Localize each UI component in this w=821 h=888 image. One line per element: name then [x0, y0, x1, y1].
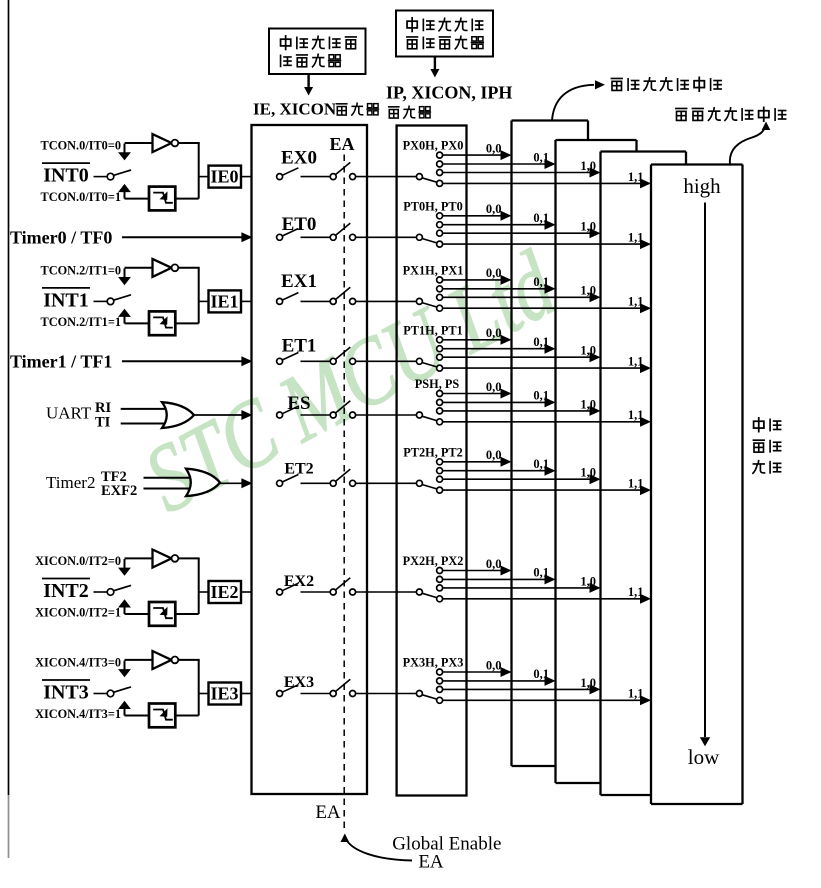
svg-text:low: low [688, 745, 720, 769]
svg-text:1,1: 1,1 [628, 295, 644, 309]
svg-text:0,1: 0,1 [533, 566, 549, 580]
svg-text:1,0: 1,0 [580, 574, 596, 588]
svg-text:1,1: 1,1 [628, 231, 644, 245]
svg-text:PT2H, PT2: PT2H, PT2 [403, 445, 462, 459]
svg-text:PX2H, PX2: PX2H, PX2 [403, 554, 464, 568]
svg-text:1,1: 1,1 [628, 687, 644, 701]
svg-text:0,1: 0,1 [533, 667, 549, 681]
svg-text:EA: EA [418, 852, 444, 873]
svg-text:XICON.0/IT2=1: XICON.0/IT2=1 [35, 606, 121, 620]
svg-text:1,1: 1,1 [628, 585, 644, 599]
svg-text:IE3: IE3 [210, 684, 238, 704]
svg-text:ET1: ET1 [282, 335, 317, 356]
svg-text:TCON.0/IT0=0: TCON.0/IT0=0 [41, 139, 121, 153]
svg-text:Timer2: Timer2 [46, 473, 95, 492]
svg-text:PT1H, PT1: PT1H, PT1 [403, 323, 462, 337]
svg-text:1,1: 1,1 [628, 477, 644, 491]
svg-text:INT0: INT0 [43, 165, 89, 187]
svg-text:0,0: 0,0 [486, 141, 502, 155]
svg-text:1,1: 1,1 [628, 355, 644, 369]
svg-text:IE1: IE1 [210, 291, 238, 311]
svg-text:Timer0 / TF0: Timer0 / TF0 [10, 228, 112, 248]
svg-text:EA: EA [329, 134, 354, 154]
svg-text:EX0: EX0 [281, 148, 317, 169]
svg-text:IE2: IE2 [210, 582, 238, 602]
svg-text:0,0: 0,0 [486, 380, 502, 394]
svg-text:TCON.2/IT1=0: TCON.2/IT1=0 [41, 263, 121, 277]
svg-text:1,0: 1,0 [580, 466, 596, 480]
svg-text:0,1: 0,1 [533, 457, 549, 471]
svg-text:0,1: 0,1 [533, 389, 549, 403]
svg-text:PX3H, PX3: PX3H, PX3 [403, 656, 464, 670]
svg-text:0,0: 0,0 [486, 326, 502, 340]
svg-text:Timer1 / TF1: Timer1 / TF1 [10, 352, 112, 372]
svg-text:TCON.2/IT1=1: TCON.2/IT1=1 [41, 315, 121, 329]
svg-text:0,0: 0,0 [486, 448, 502, 462]
svg-text:0,1: 0,1 [533, 275, 549, 289]
svg-text:UART: UART [46, 404, 92, 423]
svg-text:1,0: 1,0 [580, 344, 596, 358]
svg-text:INT2: INT2 [43, 580, 89, 602]
svg-text:IP, XICON, IPH: IP, XICON, IPH [386, 83, 512, 103]
svg-text:1,1: 1,1 [628, 170, 644, 184]
svg-text:IE0: IE0 [210, 167, 238, 187]
svg-text:1,0: 1,0 [580, 284, 596, 298]
svg-text:INT3: INT3 [43, 682, 89, 704]
svg-text:high: high [683, 174, 721, 198]
svg-text:0,1: 0,1 [533, 335, 549, 349]
svg-text:ET2: ET2 [284, 460, 313, 477]
svg-text:XICON.0/IT2=0: XICON.0/IT2=0 [35, 554, 121, 568]
svg-text:PX0H, PX0: PX0H, PX0 [403, 139, 464, 153]
svg-text:EX1: EX1 [281, 271, 317, 292]
svg-text:EA: EA [315, 802, 341, 823]
svg-text:1,0: 1,0 [580, 676, 596, 690]
svg-text:PSH, PS: PSH, PS [415, 377, 460, 391]
svg-text:Global Enable: Global Enable [392, 834, 501, 855]
svg-text:XICON.4/IT3=1: XICON.4/IT3=1 [35, 707, 121, 721]
svg-text:XICON.4/IT3=0: XICON.4/IT3=0 [35, 656, 121, 670]
svg-text:ET0: ET0 [282, 214, 317, 235]
svg-text:1,0: 1,0 [580, 397, 596, 411]
svg-text:0,0: 0,0 [486, 202, 502, 216]
svg-text:PT0H, PT0: PT0H, PT0 [403, 199, 462, 213]
svg-text:0,1: 0,1 [533, 211, 549, 225]
svg-text:0,0: 0,0 [486, 266, 502, 280]
svg-text:TI: TI [95, 415, 111, 431]
svg-text:0,0: 0,0 [486, 557, 502, 571]
svg-text:IE, XICON: IE, XICON [253, 100, 337, 119]
svg-text:1,0: 1,0 [580, 220, 596, 234]
svg-text:0,1: 0,1 [533, 150, 549, 164]
svg-text:PX1H, PX1: PX1H, PX1 [403, 263, 464, 277]
svg-text:EXF2: EXF2 [101, 483, 137, 499]
svg-text:0,0: 0,0 [486, 658, 502, 672]
svg-text:1,0: 1,0 [580, 159, 596, 173]
svg-text:TCON.0/IT0=1: TCON.0/IT0=1 [41, 190, 121, 204]
svg-text:ES: ES [287, 393, 310, 414]
svg-text:INT1: INT1 [43, 289, 89, 311]
svg-text:1,1: 1,1 [628, 408, 644, 422]
